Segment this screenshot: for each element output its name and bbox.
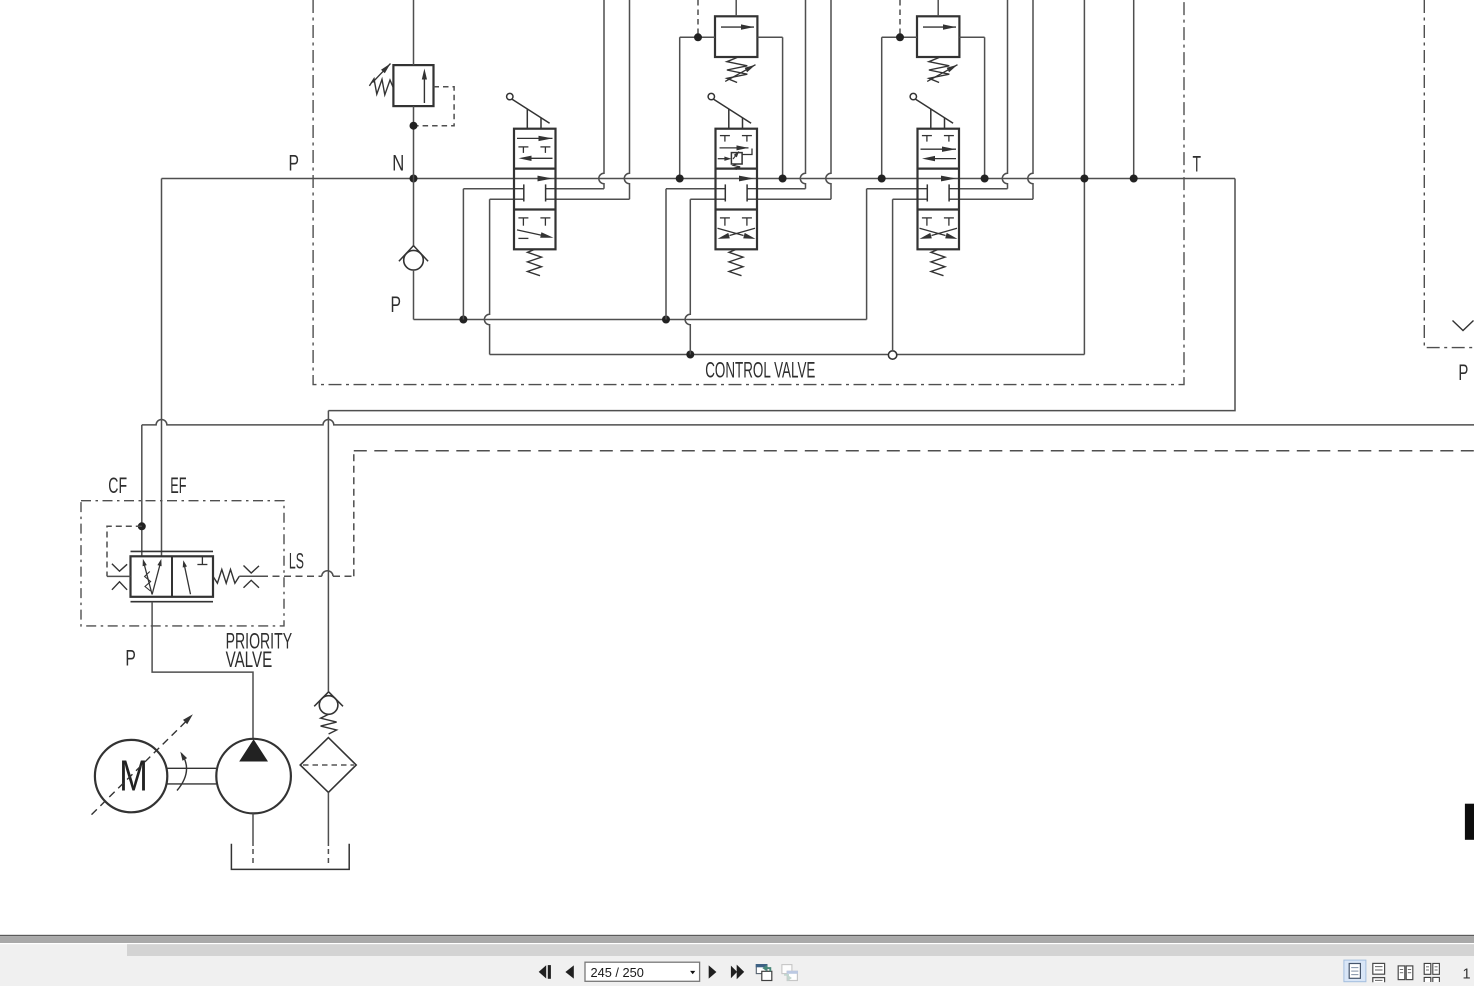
pilot throttle orifice [107,564,131,590]
svg-text:P: P [289,151,300,176]
svg-text:N: N [392,151,404,176]
CF drop wire [141,425,143,556]
valve 1 left port wires [462,189,464,320]
return spring of valve V1 [528,249,542,275]
wire N relief to bus [413,106,415,246]
port relief valve R2 [676,0,787,183]
open circle junction [888,351,896,359]
svg-text:T: T [1193,152,1202,177]
directional control valve V3 [918,129,960,250]
svg-text:245 / 250: 245 / 250 [591,965,644,980]
toolbar: first page button [539,965,551,979]
return spring of valve V3 [931,249,945,275]
black marker at right edge [1465,804,1474,840]
svg-text:LS: LS [289,549,304,574]
lower P distribution wire [414,319,867,321]
riser wire to top (through bus) [1083,0,1085,355]
variable-speed dashed arrow [92,722,186,815]
filter to tank wire [327,792,329,846]
right-hand enclosure (cut off) [1424,0,1474,348]
riser to valve 3 P port [866,189,868,320]
check valve spring [321,714,337,734]
junction dot pilot [410,122,418,130]
port relief valve R3 [878,0,989,183]
partial symbol at right edge [1453,321,1474,331]
electric motor M [95,740,167,812]
pilot dashed line of relief R1 [417,87,454,126]
N supply wire from top [413,0,415,65]
svg-text:1: 1 [1463,967,1471,983]
directional control valve V1 [514,129,556,250]
return wire down to filter [327,411,329,693]
toolbar: previous page button [565,965,573,978]
toolbar: single page layout (selected) [1344,960,1366,982]
EF wire from bus to priority valve [161,179,163,557]
drive shaft [167,767,216,769]
toolbar: next view button (disabled) [782,965,798,982]
valve 2 left port wires [665,189,667,320]
riser wire 2 to top [1133,0,1135,179]
valve 1 cylinder risers [599,0,604,189]
window bottom scrollbar [0,935,1474,986]
return filter [300,738,356,793]
svg-text:P: P [125,646,135,671]
PRIORITY VALVE enclosure (dashed box) [81,501,284,626]
system relief valve R1 [369,64,433,107]
bypass check valve [314,692,343,715]
toolbar: facing pages layout [1398,966,1413,980]
toolbar: previous view button [756,964,772,980]
secondary lower wire [490,354,1085,356]
valve 2 cylinder risers [800,0,805,189]
wire check valve to lower P bus [413,270,415,320]
junction dot at N [410,175,418,183]
return spring of valve V2 [729,249,743,275]
CONTROL VALVE enclosure (dash-dot box) [313,0,1184,385]
CF wire to steering (right edge) [142,419,1474,424]
reservoir tank [231,844,349,870]
directional control valve V2 [716,129,758,250]
check valve on N line [399,246,428,270]
svg-text:P: P [391,292,402,317]
svg-text:VALVE: VALVE [226,647,273,672]
toolbar: last page button [731,965,744,980]
T return wire: right side down and across [328,179,1235,411]
manual lever of valve V1 [507,93,550,128]
toolbar: continuous layout [1373,963,1385,982]
svg-text:CF: CF [108,473,127,498]
svg-text:CONTROL VALVE: CONTROL VALVE [705,357,815,382]
toolbar: facing continuous layout [1424,963,1439,982]
valve 3 cylinder risers [1002,0,1007,189]
LS pilot dashed wire [261,575,322,577]
rotation direction arrow [177,754,187,791]
P wire priority valve to pump [152,602,253,739]
svg-text:M: M [119,752,148,801]
valve 3 left port wire 2 [892,199,894,351]
LS dashed wire to right edge [354,450,1474,452]
priority valve body [131,551,214,601]
N/P supply bus wire [162,178,1236,180]
manual lever of valve V3 [910,93,953,128]
pump suction wire [252,813,254,846]
svg-text:EF: EF [170,473,186,498]
CF pilot dashed tap [138,522,146,530]
toolbar: next page button [709,965,717,978]
toolbar: page number box 245 / 250 [585,962,700,981]
LS throttle orifice [239,566,261,588]
svg-text:P: P [1458,360,1468,385]
hydraulic pump [216,739,291,814]
manual lever of valve V2 [708,93,751,128]
priority valve spring [213,569,239,583]
